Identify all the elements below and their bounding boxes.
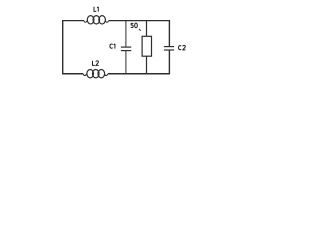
label 50 [131, 23, 137, 28]
wire left vertical [62, 20, 64, 74]
resistor R1 50 ohm box [142, 20, 151, 74]
capacitor C2 [164, 20, 174, 74]
label L1 [94, 7, 98, 12]
capacitor C1 [121, 20, 131, 74]
wire bottom rail right segment [108, 73, 170, 75]
tick mark near resistor [139, 29, 141, 31]
label C2 [179, 45, 186, 49]
wire top rail left segment [62, 20, 84, 22]
inductor L2 [83, 70, 108, 78]
label C1 [110, 44, 115, 49]
wire top rail right segment [109, 20, 170, 22]
wire bottom rail left segment [62, 73, 83, 75]
inductor L1 [84, 16, 109, 24]
label L2 [93, 61, 99, 66]
